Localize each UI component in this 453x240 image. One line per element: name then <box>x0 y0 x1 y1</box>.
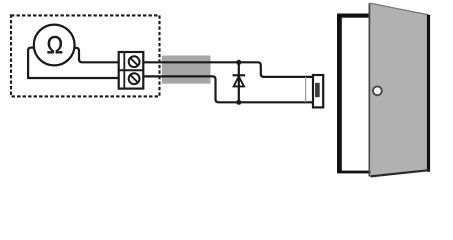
terminal screw 1 <box>129 56 140 67</box>
ohmmeter symbol Ω <box>48 36 63 53</box>
wire top run (terminal block to step) <box>143 62 312 77</box>
door leaf bottom edge <box>370 170 429 176</box>
wire ohmmeter left lead <box>28 48 35 78</box>
ohmmeter M1 <box>34 25 75 66</box>
wire ohmmeter right lead <box>74 48 119 63</box>
diode D1 branch wire <box>238 62 240 102</box>
door leaf <box>369 3 428 176</box>
reed switch S1 (door contact) <box>313 75 323 107</box>
door frame lintel <box>337 14 371 18</box>
junction node bottom <box>236 100 241 105</box>
wire bottom run (terminal block to switch) <box>143 76 312 102</box>
junction node top <box>236 60 241 65</box>
terminal block TB1 body <box>119 52 144 89</box>
wire faint link at switch terminals <box>305 77 307 102</box>
door frame jamb <box>337 14 342 172</box>
door frame sill <box>337 171 371 174</box>
diode D1 <box>233 75 246 86</box>
wire bottom (ohmmeter to terminal block) <box>27 77 118 79</box>
door leaf right edge <box>427 15 430 172</box>
cable (gray sheath) <box>162 56 211 84</box>
door knob <box>373 86 382 95</box>
dashed enclosure (tester box) <box>11 15 160 96</box>
terminal screw 2 <box>129 73 140 84</box>
